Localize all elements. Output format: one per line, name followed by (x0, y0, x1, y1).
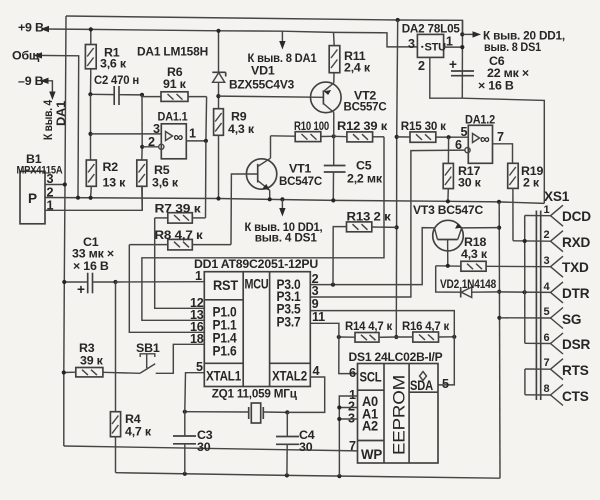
wire +9V rail (43, 29, 417, 47)
wire RTS-CTS strap (524, 369, 526, 395)
svg-text:5: 5 (442, 377, 449, 391)
resistor R11 (329, 32, 340, 83)
svg-text:WP: WP (361, 447, 382, 462)
resistor R2 (86, 160, 96, 198)
svg-text:DA2 78L05: DA2 78L05 (402, 22, 460, 36)
node XTAL1 (183, 410, 187, 414)
svg-text:Р: Р (28, 191, 37, 206)
node R9 bottom (216, 196, 220, 200)
svg-text:7: 7 (544, 357, 550, 369)
wire VT1 collector to R10 (271, 135, 296, 137)
svg-text:DS1 24LC02B-I/P: DS1 24LC02B-I/P (349, 350, 443, 364)
wire GND bottom line (116, 473, 501, 479)
svg-text:2: 2 (544, 229, 550, 241)
connector XS1 (536, 211, 540, 401)
node C2 right (140, 93, 144, 97)
svg-text:+9 В: +9 В (18, 21, 44, 35)
node B1 pin3 (63, 182, 67, 186)
svg-text:VD2 1N4148: VD2 1N4148 (440, 277, 496, 291)
svg-text:DA1.2: DA1.2 (465, 113, 495, 127)
resistor R5 (137, 147, 147, 211)
node R15 left (395, 135, 399, 139)
resistor R14 (339, 333, 397, 343)
arrow -9V left (40, 78, 49, 84)
svg-text:R15 30 к: R15 30 к (401, 119, 447, 133)
svg-text:XTAL2: XTAL2 (272, 369, 308, 384)
sensor B1 (20, 171, 45, 224)
svg-text:SG: SG (562, 312, 581, 327)
svg-text:BZX55C4V3: BZX55C4V3 (229, 78, 294, 92)
contact 4 DTR (551, 282, 564, 303)
node DA1.1 output (204, 139, 208, 143)
resistor R6 (161, 92, 207, 102)
EEPROM DS1 (358, 364, 439, 464)
contact 1 DCD (525, 205, 563, 226)
svg-text:R8 4,7 к: R8 4,7 к (155, 228, 204, 242)
svg-text:VT3 BC547C: VT3 BC547C (413, 203, 483, 217)
svg-text:6: 6 (349, 366, 356, 380)
wire -9V to pin4 DA1 (42, 81, 52, 93)
svg-text:3: 3 (312, 284, 319, 298)
svg-text:TXD: TXD (562, 260, 589, 275)
svg-text:выв. 8 DS1: выв. 8 DS1 (484, 40, 541, 54)
node VD1 bottom (216, 94, 220, 98)
node VT3 emitter riser (497, 226, 501, 230)
MCU DD1 (204, 272, 310, 387)
svg-text:+: + (449, 57, 457, 72)
contact 5 SG (499, 308, 563, 329)
svg-text:С5: С5 (356, 159, 372, 173)
svg-text:XS1: XS1 (544, 189, 570, 204)
wire RST riser to R4 (115, 282, 117, 412)
node C1 left (62, 280, 66, 284)
wire +5V top frame (66, 16, 463, 34)
wire R8 to P1.4 pin16 (129, 245, 204, 333)
wire GND riser to XS1 (498, 202, 501, 478)
svg-text:ZQ1 11,059 МГц: ZQ1 11,059 МГц (212, 387, 298, 401)
svg-text:4: 4 (313, 364, 320, 378)
wire DA1.2 pin6 to P3.1 (310, 150, 465, 297)
svg-text:13 к: 13 к (103, 176, 127, 190)
svg-text:К выв. 8 DA1: К выв. 8 DA1 (248, 51, 317, 65)
wire DS1 address pins (339, 396, 357, 476)
node VD1 top (216, 29, 220, 33)
node A2 (337, 417, 341, 421)
node DA2 pin1 (460, 45, 464, 49)
wire R18 left riser to VD2 (436, 266, 461, 292)
node R1 top (89, 27, 93, 31)
node P3.0 R13 (331, 283, 335, 287)
wire pin3 node vertical (90, 94, 92, 160)
svg-text:BC557C: BC557C (344, 100, 387, 114)
arrow -9V down (49, 92, 55, 101)
node DA1.1 pin3 (88, 132, 92, 136)
wire output to R7 (205, 141, 207, 218)
svg-text:4,7 к: 4,7 к (125, 425, 152, 439)
svg-text:BC547C: BC547C (279, 174, 322, 188)
svg-text:1: 1 (189, 127, 196, 141)
svg-text:8: 8 (544, 383, 550, 395)
node XTAL2 (285, 410, 289, 414)
svg-text:MPX4115A: MPX4115A (17, 165, 63, 177)
contact 3 TXD (551, 256, 564, 277)
svg-text:SDA: SDA (410, 378, 433, 393)
wire XTAL1 pin5 (185, 373, 205, 412)
svg-text:11: 11 (312, 310, 325, 324)
arrow to pin8 DA1 (281, 31, 283, 42)
wire R12 to P1.1 pin13 (142, 137, 384, 320)
svg-text:39 к: 39 к (80, 354, 104, 368)
resistor R17 (443, 137, 453, 201)
wire +5V left bus (64, 16, 66, 446)
wire DA2 pin2 ground (430, 57, 463, 98)
arrow K vyv 10 DD1 (281, 199, 283, 209)
svg-text:+: + (77, 282, 85, 297)
capacitor C5 (324, 136, 346, 200)
resistor R4 (110, 412, 120, 473)
node C2 left (88, 92, 92, 96)
svg-text:RXD: RXD (562, 235, 590, 250)
wire P3.7 to SCL (310, 323, 357, 373)
capacitor C6 (449, 57, 474, 76)
arrow K vyv 20 DD1 (462, 33, 477, 35)
node gnd arrow (280, 197, 284, 201)
wire +5V node vertical (461, 20, 463, 98)
svg-text:1: 1 (544, 204, 550, 216)
wire DA1.2 output pin7 (493, 144, 513, 164)
svg-text:2,2 мк: 2,2 мк (347, 172, 383, 186)
svg-text:RST: RST (213, 278, 239, 293)
svg-text:RTS: RTS (562, 363, 589, 378)
svg-text:R7 39 к: R7 39 к (155, 202, 202, 216)
svg-text:DA1 LM158H: DA1 LM158H (137, 45, 208, 59)
svg-text:∞: ∞ (480, 132, 490, 147)
svg-text:× 16 В: × 16 В (478, 79, 514, 93)
resistor R19 (508, 163, 519, 241)
svg-text:VD1: VD1 (251, 64, 275, 78)
svg-text:DTR: DTR (562, 286, 590, 301)
svg-text:2,4 к: 2,4 к (344, 61, 371, 75)
node SG riser (497, 316, 501, 320)
wire C6 ground to bus (462, 98, 544, 203)
svg-text:R12 39 к: R12 39 к (337, 119, 388, 133)
wire RST line (116, 281, 205, 283)
wire DA1.1 output pin1 (186, 140, 206, 142)
svg-text:2: 2 (47, 186, 54, 200)
arrow Obshch (34, 52, 43, 58)
crystal ZQ1 (185, 403, 287, 423)
node frame riser (396, 18, 400, 22)
resistor R3 (64, 368, 140, 377)
wire WP +5V bottom line (64, 446, 358, 451)
contact 2 RXD (513, 231, 563, 252)
transistor VT2 (311, 82, 342, 136)
svg-text:SB1: SB1 (136, 341, 160, 355)
wire DCD-DSR strap (524, 216, 526, 344)
svg-text:К выв. 4: К выв. 4 (41, 100, 55, 140)
resistor R16 (396, 332, 454, 342)
voltage regulator DA2 (417, 34, 446, 57)
svg-text:× 16 В: × 16 В (73, 259, 109, 273)
contact 7 RTS (525, 359, 563, 380)
svg-text:DSR: DSR (562, 337, 590, 352)
svg-text:5: 5 (544, 306, 550, 318)
node R3 left (62, 370, 66, 374)
resistor R7 (155, 213, 206, 223)
svg-text:6: 6 (544, 332, 550, 344)
svg-text:3: 3 (408, 37, 415, 51)
svg-text:P3.7: P3.7 (277, 315, 301, 330)
op-amp DA1.1 (159, 124, 187, 159)
node +5V arrow (460, 32, 464, 36)
svg-text:CTS: CTS (562, 389, 589, 404)
svg-text:R16 4,7 к: R16 4,7 к (402, 319, 450, 333)
svg-text:R14 4,7 к: R14 4,7 к (345, 319, 393, 333)
svg-text:R10 100: R10 100 (294, 119, 329, 133)
node VT1 emitter (268, 197, 272, 201)
wire GND bus (45, 198, 544, 204)
node R14/R16 (394, 335, 398, 339)
wire DA2 pin1 to +5V node (444, 46, 463, 48)
node R15 right pin5 (447, 135, 451, 139)
resistor R18 (436, 261, 551, 271)
wire R13 left riser (333, 227, 347, 285)
svg-text:2 к: 2 к (523, 176, 540, 190)
svg-text:DCD: DCD (562, 209, 591, 224)
svg-text:30: 30 (299, 440, 313, 454)
resistor R12 (334, 132, 384, 142)
transistor VT3 (433, 220, 499, 265)
capacitor C4 (276, 412, 299, 475)
node R16 right SDA (452, 335, 456, 339)
svg-text:5: 5 (461, 125, 468, 139)
resistor R8 (129, 239, 231, 250)
svg-text:DA1: DA1 (54, 101, 68, 126)
wire XTAL2 pin4 (287, 377, 324, 412)
wire DA1.1 pin2 (142, 146, 159, 148)
node R10/R12/C5 (332, 134, 336, 138)
node Obshch bus (76, 196, 80, 200)
wire B1 pin3 (45, 184, 65, 186)
node gnd riser (497, 200, 501, 204)
svg-text:–9 В: –9 В (18, 74, 44, 88)
node R14 left SCL (337, 335, 341, 339)
svg-text:1: 1 (195, 269, 202, 283)
arrow +9V (41, 26, 50, 32)
svg-text:EEPROM: EEPROM (390, 375, 409, 455)
resistor R9 (214, 109, 224, 199)
resistor R13 (347, 222, 397, 232)
node DA1.1 pin2 (140, 145, 144, 149)
wire DTR row (499, 291, 550, 294)
node C3 bottom (183, 472, 187, 476)
capacitor C2 (91, 86, 143, 105)
transistor VT1 (246, 136, 276, 200)
svg-text:A2: A2 (362, 419, 379, 434)
node DTR strap (523, 290, 527, 294)
contact 6 DSR (525, 333, 563, 354)
wire B1 pin1 to R5 (45, 186, 142, 210)
svg-text:5: 5 (196, 360, 203, 374)
node R17 bottom (446, 199, 450, 203)
node R13 right (395, 225, 399, 229)
wire SB1 to P1.6 pin18 (156, 344, 205, 373)
wire R6 right to DA1.1 output (205, 97, 208, 141)
op-amp DA1.2 (465, 125, 493, 163)
svg-text:7: 7 (349, 439, 356, 453)
node VT3 base (446, 264, 450, 268)
svg-text:выв. 4 DS1: выв. 4 DS1 (255, 231, 317, 245)
wire DA1.1 pin3 (91, 133, 162, 135)
svg-text:∞: ∞ (174, 130, 184, 145)
svg-text:3: 3 (153, 122, 160, 136)
svg-text:9: 9 (312, 297, 319, 311)
node C4 bottom (285, 473, 289, 477)
capacitor C3 (173, 412, 196, 474)
svg-text:30: 30 (197, 440, 211, 454)
svg-text:DA1.1: DA1.1 (158, 110, 188, 124)
zener VD1 (212, 31, 225, 109)
svg-text:SCL: SCL (360, 370, 382, 385)
svg-text:91 к: 91 к (163, 77, 187, 91)
svg-text:STU: STU (425, 42, 447, 54)
wire zener node to VT2 base (218, 96, 323, 97)
svg-text:3,6 к: 3,6 к (152, 175, 179, 189)
diode VD2 (461, 287, 500, 298)
node A1 (337, 405, 341, 409)
node C5 bottom (331, 198, 335, 202)
svg-text:4,3 к: 4,3 к (461, 247, 488, 261)
svg-text:30 к: 30 к (458, 176, 482, 190)
wire P3.5 to SDA (310, 311, 454, 385)
pushbutton SB1 (140, 354, 155, 374)
svg-text:18: 18 (190, 332, 204, 346)
svg-text:2: 2 (418, 59, 425, 73)
svg-text:С2 470 н: С2 470 н (94, 73, 139, 87)
svg-text:R13 2 к: R13 2 к (347, 210, 392, 224)
svg-text:R2: R2 (103, 160, 119, 174)
svg-text:7: 7 (497, 130, 504, 144)
svg-text:DD1 AT89C2051-12PU: DD1 AT89C2051-12PU (194, 257, 318, 271)
svg-text:4,3 к: 4,3 к (228, 122, 255, 136)
capacitor C1 (64, 273, 115, 297)
wire R6 left lead (142, 96, 161, 98)
svg-text:MCU: MCU (245, 277, 269, 292)
wire +5V riser (396, 20, 397, 337)
resistor R10 (295, 132, 334, 142)
wire P3.0 row (310, 228, 434, 285)
svg-text:3,6 к: 3,6 к (100, 57, 127, 71)
wire R8 to VT1 base (231, 174, 258, 245)
node A0A1A2 gnd (337, 474, 341, 478)
node RXD strap (523, 239, 527, 243)
node C1 right RST (113, 280, 117, 284)
wire C2/R6 to pin2 (141, 95, 143, 147)
resistor R15 (397, 132, 469, 142)
svg-text:XTAL1: XTAL1 (206, 369, 242, 384)
node R2 bottom (89, 196, 93, 200)
contact 8 CTS (525, 385, 563, 406)
resistor R1 (85, 29, 96, 94)
node VD2 cathode riser (497, 290, 501, 294)
wire R7 to P1.0 pin12 (155, 218, 205, 308)
wire common Obshch (35, 55, 79, 197)
svg-text:P1.6: P1.6 (213, 344, 238, 359)
svg-text:3: 3 (544, 255, 550, 267)
